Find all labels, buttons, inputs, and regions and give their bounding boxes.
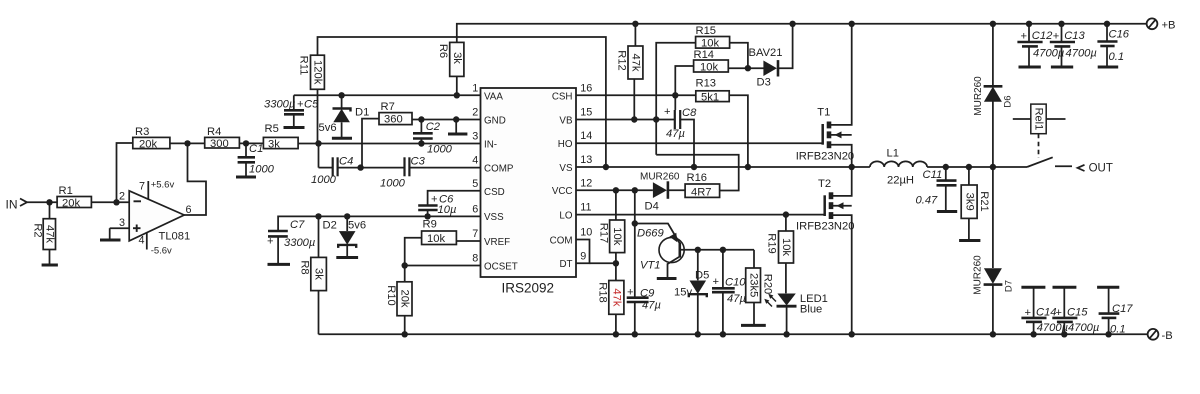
svg-text:10k: 10k xyxy=(701,38,719,50)
svg-text:3: 3 xyxy=(119,217,125,229)
svg-text:CSD: CSD xyxy=(484,187,505,198)
IC U1 IRS2092 xyxy=(472,83,592,296)
wire R5 to IC pin3 IN- xyxy=(298,143,480,145)
wire IN to R1 xyxy=(27,201,57,203)
svg-text:47k: 47k xyxy=(610,288,622,306)
svg-text:HO: HO xyxy=(558,139,573,150)
capacitor C1 xyxy=(238,143,275,177)
svg-text:4: 4 xyxy=(472,155,478,167)
node OUT terminal xyxy=(1078,162,1113,174)
resistor R21 xyxy=(961,167,990,240)
svg-text:C3: C3 xyxy=(411,156,426,168)
ground R20 xyxy=(741,324,766,327)
wire R11 bottom through VAA to IN- and down to COMP xyxy=(318,89,319,167)
node C13 on +B rail xyxy=(1058,21,1064,27)
svg-text:OCSET: OCSET xyxy=(484,261,518,272)
node R18 on bottom rail xyxy=(613,331,619,337)
ground GND pin2 xyxy=(448,116,467,134)
wire R12 top to +B rail xyxy=(634,24,636,46)
svg-text:R14: R14 xyxy=(694,49,715,61)
relay coil Rel1 xyxy=(1013,104,1066,134)
svg-text:C1: C1 xyxy=(249,143,263,155)
node T2 source on bottom rail xyxy=(849,331,855,337)
wire R9 right to IC pin7 VREF xyxy=(456,240,480,242)
ground D2 xyxy=(336,256,358,259)
svg-text:R20: R20 xyxy=(762,274,774,295)
svg-text:14: 14 xyxy=(580,130,592,142)
capacitor C11 xyxy=(916,167,957,211)
inductor L1 22uH xyxy=(870,148,927,187)
node R13 on VS xyxy=(745,164,751,170)
node R6 on VAA line xyxy=(454,92,460,98)
node D5 on base line xyxy=(695,247,701,253)
wire VCC line pin12 xyxy=(576,189,653,191)
wire R12 bottom to VB line xyxy=(633,79,635,120)
diode D3 BAV21 xyxy=(749,47,783,89)
svg-text:2: 2 xyxy=(119,191,125,203)
transistor T1 IRFB23N20 xyxy=(796,24,854,167)
ground R21 xyxy=(959,239,980,242)
svg-text:VB: VB xyxy=(559,116,573,127)
wire staircase VB to R16 right xyxy=(656,155,739,191)
svg-text:1000: 1000 xyxy=(311,174,337,186)
resistor R13 xyxy=(696,78,730,104)
svg-text:MUR260: MUR260 xyxy=(973,255,984,295)
svg-text:15v: 15v xyxy=(674,287,692,299)
svg-text:VSS: VSS xyxy=(484,212,504,223)
svg-text:C2: C2 xyxy=(426,121,441,133)
node D3 on +B rail xyxy=(789,21,795,27)
svg-text:5v6: 5v6 xyxy=(319,122,337,134)
svg-text:47µ: 47µ xyxy=(727,293,746,305)
node R21 junction xyxy=(966,164,972,170)
svg-text:+: + xyxy=(713,276,720,288)
diode D6 MUR260 xyxy=(973,24,1013,167)
svg-text:GND: GND xyxy=(484,115,506,126)
svg-text:D7: D7 xyxy=(1004,280,1015,292)
svg-text:CSH: CSH xyxy=(552,91,573,102)
svg-text:C11: C11 xyxy=(923,169,943,181)
svg-text:DT: DT xyxy=(559,259,572,270)
wire C9 branch vertical xyxy=(634,190,636,297)
svg-text:5v6: 5v6 xyxy=(348,220,366,232)
node input junction xyxy=(46,199,52,205)
wire COMP line xyxy=(319,167,333,169)
node +B terminal xyxy=(1147,18,1176,31)
svg-text:C13: C13 xyxy=(1064,30,1085,42)
node C17 on bottom rail xyxy=(1105,331,1111,337)
svg-text:C17: C17 xyxy=(1112,303,1133,315)
capacitor C3 xyxy=(380,156,426,190)
node C12 on +B rail xyxy=(1026,21,1032,27)
wire CSH line pin16 xyxy=(576,94,696,96)
capacitor C5 xyxy=(264,95,319,127)
svg-text:6: 6 xyxy=(472,203,478,215)
svg-text:+: + xyxy=(1021,31,1028,43)
svg-text:+B: +B xyxy=(1162,20,1176,32)
svg-text:300: 300 xyxy=(210,138,229,150)
svg-text:D5: D5 xyxy=(695,270,709,282)
svg-text:VS: VS xyxy=(559,163,573,174)
svg-text:IN: IN xyxy=(6,198,18,212)
wire VT1 base line xyxy=(698,249,754,251)
resistor R12 xyxy=(616,46,643,79)
resistor R16 xyxy=(685,172,720,198)
svg-text:3: 3 xyxy=(472,131,478,143)
node C15 on bottom rail xyxy=(1061,331,1067,337)
svg-text:C10: C10 xyxy=(725,277,746,289)
wire R15 left down to VB xyxy=(656,43,695,155)
capacitor C15 xyxy=(1052,287,1099,334)
node T1 drain on +B rail xyxy=(849,21,855,27)
node R12 on VB xyxy=(631,116,637,122)
ground C7 xyxy=(268,263,291,266)
capacitor C6 xyxy=(418,194,456,217)
resistor R5 xyxy=(263,123,298,150)
svg-text:D1: D1 xyxy=(355,107,369,119)
node C11 junction xyxy=(943,164,949,170)
wire R14 left down to C8 plate xyxy=(675,66,693,110)
node R7/C2/GND junction xyxy=(418,116,424,122)
resistor R6 xyxy=(437,42,464,76)
transistor VT1 D669 xyxy=(635,224,698,279)
node op-amp inverting input xyxy=(113,199,119,205)
svg-text:R13: R13 xyxy=(696,78,717,90)
svg-text:5k1: 5k1 xyxy=(701,92,719,104)
wire DT line xyxy=(590,262,616,264)
svg-text:20k: 20k xyxy=(399,289,411,307)
ground C12 xyxy=(1019,66,1041,69)
wire R2 bottom xyxy=(49,250,51,266)
svg-text:R1: R1 xyxy=(59,185,73,197)
svg-text:20k: 20k xyxy=(139,139,157,151)
wire VB line pin15 xyxy=(576,119,675,121)
resistor R9 xyxy=(422,219,457,246)
svg-text:6: 6 xyxy=(186,204,192,216)
svg-text:120k: 120k xyxy=(312,60,324,85)
op-amp pin4 -5.6v xyxy=(139,232,173,256)
node R17 on VCC xyxy=(613,187,619,193)
svg-text:Rel1: Rel1 xyxy=(1033,108,1045,131)
svg-text:BAV21: BAV21 xyxy=(749,47,783,59)
svg-text:+: + xyxy=(1025,307,1032,319)
ground D1 xyxy=(332,137,352,140)
svg-text:D669: D669 xyxy=(637,228,664,240)
svg-text:IN-: IN- xyxy=(484,139,497,150)
wire R8 to bottom rail xyxy=(318,291,320,335)
svg-text:2: 2 xyxy=(472,107,478,119)
node R11/COMP junction on IN- xyxy=(315,140,321,146)
svg-text:R11: R11 xyxy=(298,56,310,76)
wire R3 to R4 xyxy=(170,142,205,144)
svg-text:T2: T2 xyxy=(818,178,831,190)
svg-text:LO: LO xyxy=(559,210,572,221)
svg-text:10k: 10k xyxy=(427,233,445,245)
svg-text:+: + xyxy=(664,106,671,118)
capacitor C13 xyxy=(1050,24,1097,67)
LED1 Blue xyxy=(764,293,828,334)
node C10 on bottom rail xyxy=(720,331,726,337)
svg-text:1: 1 xyxy=(472,83,478,95)
svg-text:C7: C7 xyxy=(290,219,305,231)
resistor R7 xyxy=(379,101,412,126)
svg-text:D3: D3 xyxy=(757,77,771,89)
svg-text:23k5: 23k5 xyxy=(747,273,759,297)
node C9 branch on VCC xyxy=(632,187,638,193)
svg-text:VAA: VAA xyxy=(484,91,503,102)
wire relay actuator dashed xyxy=(1038,134,1040,158)
resistor R11 xyxy=(298,55,325,89)
node R12 on +B rail xyxy=(632,21,638,27)
wire R9 left down to OCSET xyxy=(405,238,422,266)
zener diode D5 15v xyxy=(674,250,709,334)
node C9 on bottom rail xyxy=(632,331,638,337)
resistor R1 xyxy=(57,185,91,209)
svg-text:4700µ: 4700µ xyxy=(1066,48,1097,60)
svg-text:-B: -B xyxy=(1162,330,1173,342)
svg-text:C8: C8 xyxy=(682,107,697,119)
node VS feedback vertical xyxy=(603,164,609,170)
wire feedback staircase to op-amp output xyxy=(184,143,206,215)
svg-text:15: 15 xyxy=(580,107,592,119)
svg-text:360: 360 xyxy=(384,114,403,126)
svg-text:47µ: 47µ xyxy=(642,300,661,312)
svg-text:20k: 20k xyxy=(62,197,80,209)
node IN terminal xyxy=(6,198,28,212)
resistor R19 xyxy=(766,215,794,294)
node R15/staircase on VB xyxy=(653,116,659,122)
switch contact xyxy=(1027,157,1072,167)
wire D3 cathode up to +B rail xyxy=(778,24,793,68)
ground C11 xyxy=(937,210,957,213)
node D1 on VAA line xyxy=(338,92,344,98)
node C6 on VSS line xyxy=(424,213,430,219)
resistor R17 xyxy=(598,190,625,263)
svg-text:7: 7 xyxy=(139,181,145,193)
svg-text:R9: R9 xyxy=(423,219,437,231)
svg-text:47k: 47k xyxy=(43,225,55,243)
svg-text:10µ: 10µ xyxy=(438,204,457,216)
wire op-amp pin3 xyxy=(110,227,130,229)
node R14/R15 junction xyxy=(745,65,751,71)
svg-text:R5: R5 xyxy=(265,123,279,135)
svg-text:R3: R3 xyxy=(135,126,149,138)
diode D7 MUR260 xyxy=(973,167,1015,334)
svg-text:R18: R18 xyxy=(597,282,609,303)
ground C16 xyxy=(1098,66,1119,69)
svg-text:9: 9 xyxy=(580,250,586,262)
wire R6 top to +B rail xyxy=(457,24,1147,43)
svg-text:10k: 10k xyxy=(780,238,792,256)
wire R14 right / R15 right join xyxy=(730,43,748,68)
svg-text:+: + xyxy=(1053,31,1060,43)
svg-text:12: 12 xyxy=(580,177,592,189)
svg-text:OUT: OUT xyxy=(1089,162,1113,174)
svg-text:C9: C9 xyxy=(640,288,654,300)
node R14 branch on CSH xyxy=(672,92,678,98)
capacitor C7 xyxy=(267,219,315,264)
node T1/T2 on VS xyxy=(849,164,855,170)
svg-text:R12: R12 xyxy=(616,50,628,71)
ground C5 xyxy=(284,126,305,129)
capacitor C4 xyxy=(311,156,353,187)
svg-text:IRFB23N20: IRFB23N20 xyxy=(796,151,854,163)
svg-text:+5.6v: +5.6v xyxy=(151,180,175,191)
svg-text:MUR260: MUR260 xyxy=(640,172,680,183)
resistor R15 xyxy=(696,25,730,50)
zener diode D2 5v6 xyxy=(323,216,367,257)
svg-text:MUR260: MUR260 xyxy=(973,76,984,116)
wire IC pin5 CSD to C6 xyxy=(428,191,481,205)
svg-text:0.1: 0.1 xyxy=(1110,324,1126,336)
ground C13 xyxy=(1051,66,1073,69)
zener diode D1 5v6 xyxy=(319,95,370,138)
svg-text:7: 7 xyxy=(472,228,478,240)
svg-text:R7: R7 xyxy=(381,101,395,113)
svg-text:VREF: VREF xyxy=(484,237,510,248)
svg-text:L1: L1 xyxy=(887,148,899,160)
svg-text:0.1: 0.1 xyxy=(1109,51,1125,63)
svg-text:R15: R15 xyxy=(696,25,717,37)
wire R2 top xyxy=(49,202,51,218)
svg-text:TL081: TL081 xyxy=(159,231,191,243)
node R7 on COMP line xyxy=(357,164,363,170)
node D5 on bottom rail xyxy=(695,331,701,337)
node C8 on VS xyxy=(691,164,697,170)
resistor R20 xyxy=(746,250,774,325)
diode D4 MUR260 xyxy=(640,172,685,213)
svg-text:R2: R2 xyxy=(31,223,43,237)
wire HO line pin14 xyxy=(576,142,823,144)
node D2 on VSS line xyxy=(344,213,350,219)
svg-text:R21: R21 xyxy=(978,191,990,212)
svg-text:47µ: 47µ xyxy=(666,128,685,140)
op-amp U1 TL081 xyxy=(119,191,192,243)
svg-text:47k: 47k xyxy=(630,53,642,71)
ground R2 xyxy=(42,264,58,267)
svg-text:10k: 10k xyxy=(700,61,718,73)
node C1 junction xyxy=(243,140,249,146)
svg-text:C4: C4 xyxy=(339,156,353,168)
capacitor C8 xyxy=(664,106,697,167)
svg-text:D4: D4 xyxy=(645,201,659,213)
node D6/D7 on output line xyxy=(990,164,996,170)
svg-text:VCC: VCC xyxy=(552,186,573,197)
svg-text:R17: R17 xyxy=(598,223,610,244)
node LED1 on bottom rail xyxy=(783,331,789,337)
op-amp pin7 +5.6v xyxy=(139,180,174,200)
svg-text:R6: R6 xyxy=(437,44,449,58)
wire R11 top to VS sense line xyxy=(318,37,606,167)
svg-text:1000: 1000 xyxy=(249,164,275,176)
wire LO line pin11 xyxy=(576,214,825,216)
ground op-amp pin3 xyxy=(100,228,121,240)
svg-text:IRFB23N20: IRFB23N20 xyxy=(796,220,854,232)
capacitor C9 xyxy=(627,287,661,335)
svg-text:0.47: 0.47 xyxy=(916,195,939,207)
node R19 on LO line xyxy=(783,211,789,217)
svg-text:13: 13 xyxy=(580,154,592,166)
resistor R3 xyxy=(133,126,170,150)
svg-text:11: 11 xyxy=(580,202,591,214)
wire R7 right / GND pin2 line xyxy=(412,119,481,121)
svg-text:10k: 10k xyxy=(611,227,623,245)
node C16 on +B rail xyxy=(1104,21,1110,27)
wire IC pin8 OCSET xyxy=(405,265,481,267)
resistor R10 xyxy=(385,266,412,316)
capacitor C14 xyxy=(1021,287,1068,334)
node D7 on bottom rail xyxy=(990,331,996,337)
capacitor C2 xyxy=(413,120,453,156)
ground VT1 emitter xyxy=(657,277,677,280)
svg-text:4: 4 xyxy=(139,235,145,247)
svg-text:COM: COM xyxy=(550,235,573,246)
wire R3 branch up xyxy=(117,143,133,202)
svg-text:C16: C16 xyxy=(1109,29,1130,41)
resistor R8 xyxy=(299,216,327,290)
svg-text:3k: 3k xyxy=(451,52,463,64)
transistor T2 IRFB23N20 xyxy=(796,167,854,334)
svg-text:10: 10 xyxy=(580,227,592,239)
node D6 on +B rail xyxy=(990,21,996,27)
svg-text:D6: D6 xyxy=(1002,95,1013,107)
node -B terminal xyxy=(1148,329,1173,342)
wire C3 to IC pin4 COMP xyxy=(409,167,480,169)
svg-text:1000: 1000 xyxy=(380,178,406,190)
wire VS line pin13 xyxy=(576,166,870,168)
svg-text:4R7: 4R7 xyxy=(691,186,712,198)
wire R6 bottom to VAA xyxy=(456,76,458,95)
svg-text:R19: R19 xyxy=(766,233,778,254)
node R8 on VSS line xyxy=(315,213,321,219)
wire R4 to R5 xyxy=(239,142,263,144)
svg-text:VT1: VT1 xyxy=(640,260,661,272)
wire R1 to op-amp xyxy=(91,201,129,203)
capacitor C12 xyxy=(1017,24,1064,67)
node R17/R18 on DT xyxy=(613,260,619,266)
svg-text:R4: R4 xyxy=(207,126,221,138)
wire R10 to bottom rail xyxy=(404,316,406,335)
svg-text:Blue: Blue xyxy=(800,304,822,316)
svg-text:+: + xyxy=(267,236,274,248)
node C10 on base line xyxy=(720,247,726,253)
svg-text:R16: R16 xyxy=(687,172,708,184)
resistor R14 xyxy=(694,49,729,73)
wire C4 to C3 xyxy=(338,167,405,169)
svg-text:R8: R8 xyxy=(299,260,311,274)
svg-text:+: + xyxy=(1055,307,1062,319)
resistor R2 xyxy=(31,219,55,250)
wire L1 to switch xyxy=(927,166,1027,168)
node C2 bottom junction xyxy=(418,140,424,146)
capacitor C17 xyxy=(1097,287,1133,335)
svg-text:-5.6v: -5.6v xyxy=(151,246,172,257)
svg-text:3300µ: 3300µ xyxy=(284,237,315,249)
svg-text:4700µ: 4700µ xyxy=(1068,322,1099,334)
wire R7 left to COMP junction xyxy=(362,119,379,168)
svg-text:D2: D2 xyxy=(323,220,337,232)
svg-text:8: 8 xyxy=(472,253,478,265)
svg-text:+: + xyxy=(627,287,634,299)
wire bottom rail xyxy=(319,333,1149,335)
wire VAA line xyxy=(294,94,481,96)
ground C1 xyxy=(236,176,256,179)
svg-text:R10: R10 xyxy=(385,285,397,306)
svg-text:3300µ: 3300µ xyxy=(264,98,295,110)
svg-text:5: 5 xyxy=(472,178,478,190)
svg-text:3k: 3k xyxy=(268,139,280,151)
svg-text:+: + xyxy=(297,98,304,110)
